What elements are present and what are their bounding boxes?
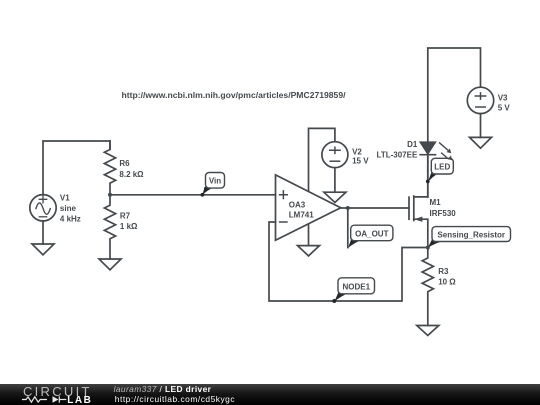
wire V1 bottom: [42, 221, 44, 244]
logo resistor zigzag and diode: [22, 396, 66, 402]
ground below op-amp: [298, 246, 320, 256]
resistor R7: [104, 195, 115, 259]
transistor M1 drain lead: [414, 155, 428, 197]
wire V1 top to R6 top: [43, 141, 110, 195]
svg-text:M1: M1: [430, 198, 442, 207]
svg-text:R6: R6: [119, 159, 130, 168]
svg-text:R7: R7: [120, 212, 131, 221]
voltage source V1: [30, 195, 56, 221]
diode D1 LED arrow2 head: [448, 156, 453, 161]
flag Vin: [201, 173, 225, 197]
voltage source V2: [322, 142, 348, 168]
transistor M1 source arrow: [414, 217, 422, 222]
wire junction to op-amp + input: [110, 194, 276, 196]
ground below V1: [32, 244, 54, 255]
resistor R3: [422, 248, 433, 326]
svg-text:10 Ω: 10 Ω: [438, 277, 456, 286]
flag NODE1: [332, 278, 374, 303]
svg-text:Sensing_Resistor: Sensing_Resistor: [437, 230, 505, 239]
transistor M1 source lead: [414, 219, 428, 247]
svg-text:4 kHz: 4 kHz: [60, 215, 81, 224]
transistor M1 gate bar: [408, 197, 410, 219]
wire V3 bottom: [480, 114, 482, 138]
svg-text:LM741: LM741: [289, 211, 314, 220]
node output junction dot: [346, 206, 350, 210]
svg-text:IRF530: IRF530: [430, 209, 457, 218]
node sense junction dot: [426, 246, 430, 250]
node junction dot: [108, 193, 112, 197]
svg-text:NODE1: NODE1: [343, 282, 371, 291]
op-amp V+ pin wire to V2: [309, 128, 335, 190]
svg-text:5 V: 5 V: [498, 103, 511, 112]
svg-text:1 kΩ: 1 kΩ: [120, 222, 138, 231]
voltage source V3: [467, 87, 493, 113]
ground below V3: [470, 137, 492, 148]
wire V2 bottom: [334, 168, 336, 193]
op-amp + input marker: [280, 191, 288, 199]
svg-text:LAB: LAB: [67, 395, 91, 405]
svg-text:lauram337 / LED driver: lauram337 / LED driver: [114, 384, 212, 394]
wire top rail LED anode to V3: [428, 48, 481, 142]
wire op-amp output to MOSFET gate: [341, 207, 409, 209]
op-amp OA3 triangle: [276, 175, 341, 240]
svg-text:V3: V3: [498, 93, 508, 102]
svg-text:OA3: OA3: [289, 201, 306, 210]
svg-text:D1: D1: [407, 140, 418, 149]
wire OA_OUT stub: [347, 208, 349, 248]
svg-text:V1: V1: [60, 194, 70, 203]
svg-text:R3: R3: [438, 267, 449, 276]
wire LED cathode to drain: [427, 155, 429, 197]
svg-text:8.2 kΩ: 8.2 kΩ: [119, 170, 144, 179]
ground below R7: [99, 259, 121, 270]
wire feedback: - input to NODE1 rail to sense junction: [269, 222, 428, 301]
svg-text:Vin: Vin: [209, 177, 221, 186]
op-amp - input marker: [280, 221, 287, 223]
svg-text:15 V: 15 V: [352, 157, 369, 166]
svg-text:V2: V2: [352, 148, 362, 157]
svg-text:sine: sine: [60, 204, 77, 213]
transistor M1 channel bar: [413, 196, 415, 220]
svg-text:http://circuitlab.com/cd5kygc: http://circuitlab.com/cd5kygc: [115, 394, 235, 404]
flag Sensing_Resistor: [428, 227, 511, 248]
resistor R6: [104, 141, 115, 195]
flag LED: [426, 158, 453, 183]
svg-text:LTL-307EE: LTL-307EE: [377, 151, 418, 160]
ground below V2: [324, 192, 346, 202]
svg-text:OA_OUT: OA_OUT: [355, 229, 388, 238]
diode D1 LED: [420, 142, 451, 160]
op-amp V- pin wire: [308, 224, 310, 245]
svg-text:http://www.ncbi.nlm.nih.gov/pm: http://www.ncbi.nlm.nih.gov/pmc/articles…: [122, 90, 347, 100]
flag OA_OUT: [348, 225, 393, 248]
svg-text:LED: LED: [434, 163, 450, 172]
ground below R3: [417, 326, 439, 336]
